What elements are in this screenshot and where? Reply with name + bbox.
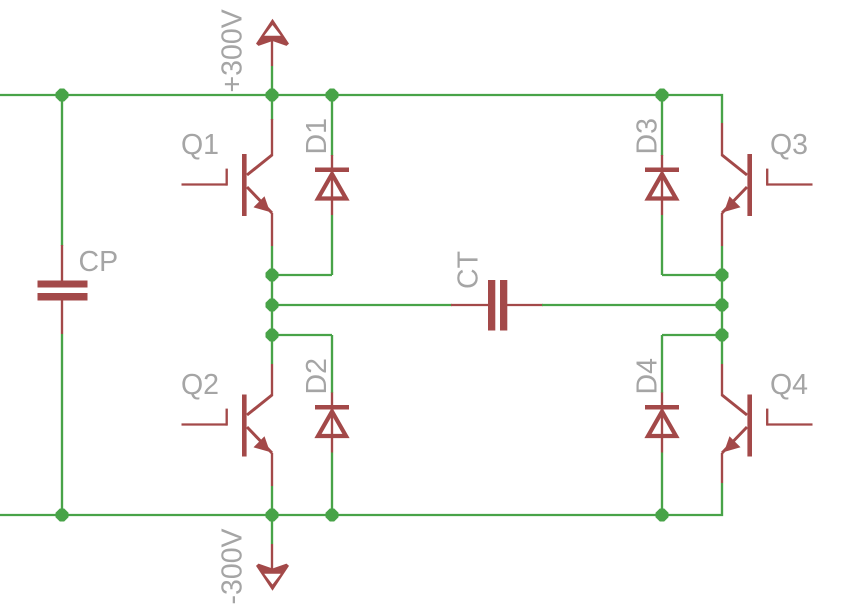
junction top rail / CP	[56, 89, 69, 102]
svg-text:D3: D3	[632, 118, 664, 154]
wire Q3 emitter / D3 node	[662, 274, 722, 276]
diode D3	[632, 95, 680, 275]
wire top rail +300V net	[0, 95, 722, 123]
svg-text:Q1: Q1	[181, 129, 219, 161]
capacitor CP	[38, 245, 119, 334]
junction bottom rail / D2	[326, 509, 339, 522]
diode D4	[632, 335, 680, 515]
wire Q1 emitter / D1 node	[272, 274, 332, 276]
diode D2	[301, 335, 349, 515]
transistor Q2	[181, 364, 272, 515]
supply +300V symbol	[217, 9, 290, 95]
svg-text:CP: CP	[79, 246, 119, 278]
capacitor CT	[272, 251, 722, 331]
svg-text:D1: D1	[301, 118, 333, 154]
svg-text:D2: D2	[301, 358, 333, 394]
junction right node B mid	[716, 299, 729, 312]
junction top rail / D3	[656, 89, 669, 102]
junction bottom rail / Q2 emitter	[266, 509, 279, 522]
junction top rail / Q1 collector	[266, 89, 279, 102]
junction right node B upper	[716, 269, 729, 282]
supply -300V symbol	[217, 515, 290, 605]
svg-text:+300V: +300V	[217, 9, 249, 92]
wire bottom rail -300V net	[0, 483, 722, 515]
junction left node A mid	[266, 299, 279, 312]
svg-text:-300V: -300V	[217, 528, 249, 604]
svg-text:CT: CT	[453, 251, 485, 289]
transistor Q1	[181, 95, 272, 364]
junction bottom rail / D4	[656, 509, 669, 522]
wire left branch upper (CP top net)	[61, 95, 63, 246]
wire Q4 collector / D4 node	[662, 334, 722, 336]
transistor Q3	[722, 123, 813, 364]
junction bottom rail / CP	[56, 509, 69, 522]
wire left branch lower (CP bottom net)	[61, 334, 63, 515]
svg-text:D4: D4	[632, 358, 664, 395]
svg-text:Q3: Q3	[770, 129, 808, 161]
junction left node A upper	[266, 269, 279, 282]
wire Q2 collector / D2 node	[272, 334, 332, 336]
svg-text:Q2: Q2	[181, 369, 219, 401]
junction left node A lower	[266, 329, 279, 342]
junction right node B lower	[716, 329, 729, 342]
svg-text:Q4: Q4	[770, 369, 808, 401]
diode D1	[301, 95, 349, 275]
transistor Q4	[722, 364, 813, 483]
junction top rail / D1	[326, 89, 339, 102]
